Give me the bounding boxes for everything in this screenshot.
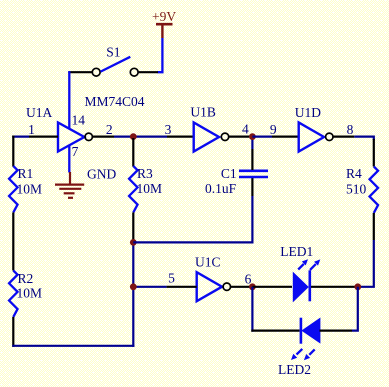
svg-text:R1: R1 (18, 166, 34, 181)
op-amp U1B (inverter) (190, 105, 228, 152)
svg-text:5: 5 (168, 271, 175, 286)
svg-text:10M: 10M (137, 181, 163, 196)
wire R4 bottom lead (373, 213, 375, 240)
wire LED2 left horizontal (251, 330, 299, 332)
wire LED2 to right riser (320, 330, 353, 332)
op-amp U1C (inverter) (195, 255, 231, 302)
wire pin6 node to LED1 (252, 286, 292, 288)
svg-text:R3: R3 (137, 166, 153, 181)
wire pin 5 stub (167, 286, 197, 288)
svg-text:0.1uF: 0.1uF (205, 181, 237, 196)
node F junction dot (LED right) (354, 283, 361, 290)
svg-text:R2: R2 (18, 271, 34, 286)
svg-text:LED1: LED1 (280, 244, 313, 259)
wire C1 bottom lead (251, 178, 253, 196)
wire LED1 to right node (311, 286, 358, 288)
wire pin 1 stub (29, 136, 58, 138)
wire pin 9 stub (272, 136, 299, 138)
capacitor C1 (205, 166, 268, 196)
svg-text:10M: 10M (17, 182, 43, 197)
wire pin 3 stub (167, 136, 194, 138)
svg-text:4: 4 (242, 122, 249, 137)
node D junction dot (pin5) (130, 283, 137, 290)
wire pin 4 stub (229, 136, 250, 138)
wire bottom riser to pin5 node (132, 287, 134, 347)
op-amp U1A (inverter) (26, 105, 92, 152)
wire R4 to LED node (358, 240, 374, 287)
wire pin 8 stub (333, 136, 354, 138)
op-amp U1D (inverter) (295, 105, 333, 152)
svg-text:10M: 10M (17, 286, 43, 301)
wire R3 top lead (132, 138, 134, 167)
LED2 (278, 318, 319, 377)
wire node to pin 3 (133, 136, 167, 138)
svg-text:U1C: U1C (195, 255, 221, 270)
wire R3 bottom lead (132, 212, 134, 242)
node E junction dot (pin6) (249, 283, 256, 290)
wire node to pin 9 (252, 136, 272, 138)
svg-text:R4: R4 (346, 166, 362, 181)
wire R4 top lead (373, 139, 375, 167)
wire R2 bottom lead (12, 317, 14, 347)
svg-text:14: 14 (72, 113, 86, 128)
node C junction dot (pin4/9) (249, 133, 256, 140)
power +9V (152, 9, 176, 38)
svg-text:LED2: LED2 (278, 362, 311, 377)
node B junction dot (R3/C1) (130, 239, 137, 246)
svg-text:+9V: +9V (152, 9, 176, 24)
wire switch to pin 14 (68, 71, 70, 129)
wire pin 2 stub (92, 136, 114, 138)
switch S1 (92, 45, 138, 77)
wire C1 bottom horizontal (133, 241, 253, 243)
wire switch right stub (139, 71, 158, 73)
svg-text:7: 7 (72, 144, 79, 159)
wire switch left stub (68, 71, 92, 73)
ground (55, 167, 116, 198)
wire pin 8 to R4 corner (354, 137, 374, 140)
wire R1 to R2 (12, 212, 14, 270)
wire pin 6 stub (231, 286, 253, 288)
resistor R4 (346, 166, 378, 213)
wire LED2 right corner (352, 287, 358, 331)
svg-text:GND: GND (87, 167, 116, 182)
wire R1 top lead (12, 136, 14, 167)
wire +9V stem to switch (158, 38, 163, 72)
svg-text:C1: C1 (221, 166, 237, 181)
resistor R1 (9, 166, 42, 213)
svg-text:MM74C04: MM74C04 (85, 94, 145, 109)
svg-text:3: 3 (165, 122, 172, 137)
wire C1 top lead (251, 149, 253, 170)
wire LED2 left riser (251, 287, 253, 332)
svg-text:8: 8 (347, 122, 354, 137)
svg-text:U1D: U1D (295, 105, 321, 120)
wire pin 1 to R1 (12, 136, 29, 138)
wire pin 7 to ground (68, 145, 70, 173)
svg-text:U1A: U1A (26, 105, 52, 120)
svg-text:U1B: U1B (190, 105, 216, 120)
wire C1 bottom riser (251, 196, 253, 244)
wire R3 node to pin5 node (132, 242, 134, 286)
svg-text:1: 1 (28, 122, 35, 137)
svg-text:510: 510 (346, 182, 367, 197)
svg-text:9: 9 (270, 122, 277, 137)
wire pin 5 from node (133, 286, 166, 288)
wire C1 to pin4 node (251, 137, 253, 149)
svg-text:S1: S1 (106, 45, 120, 60)
node A junction dot (130, 133, 137, 140)
wire bottom horizontal (12, 345, 134, 347)
resistor R3 (129, 166, 162, 213)
svg-text:2: 2 (106, 122, 113, 137)
wire pin 2 to node (114, 136, 133, 138)
LED1 (280, 244, 320, 301)
resistor R2 (9, 271, 42, 317)
